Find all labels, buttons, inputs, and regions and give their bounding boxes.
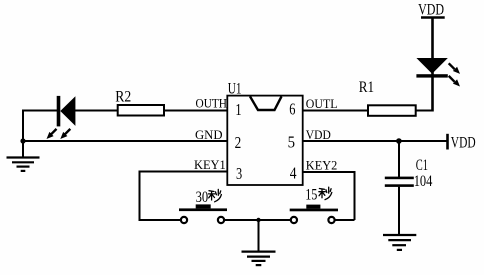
svg-text:5: 5 (288, 133, 295, 152)
svg-text:VDD: VDD (306, 127, 331, 142)
svg-text:OUTH: OUTH (196, 95, 228, 110)
svg-text:2: 2 (235, 133, 242, 152)
svg-text:1: 1 (235, 100, 241, 119)
svg-text:U1: U1 (228, 78, 242, 97)
svg-text:VDD: VDD (451, 133, 476, 152)
svg-text:R1: R1 (359, 77, 374, 96)
svg-text:OUTL: OUTL (306, 96, 338, 111)
svg-text:15: 15 (305, 186, 317, 203)
svg-text:GND: GND (195, 127, 223, 142)
svg-text:30: 30 (196, 189, 209, 206)
svg-text:104: 104 (414, 171, 433, 190)
svg-text:6: 6 (289, 100, 295, 119)
svg-text:R2: R2 (115, 86, 131, 105)
svg-text:KEY2: KEY2 (306, 158, 338, 173)
svg-text:4: 4 (290, 163, 297, 182)
svg-text:3: 3 (236, 164, 242, 183)
svg-text:VDD: VDD (418, 0, 444, 18)
svg-text:KEY1: KEY1 (194, 157, 226, 172)
